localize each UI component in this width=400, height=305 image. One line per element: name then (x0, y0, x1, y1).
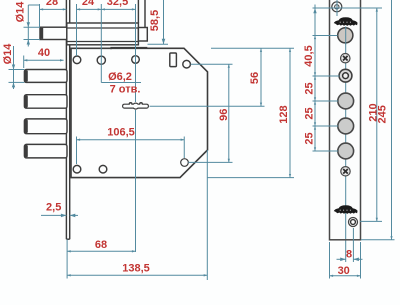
dimension 210 line (376, 8, 378, 221)
svg-text:Ø6,2: Ø6,2 (108, 71, 132, 83)
dimension 30 line (330, 275, 361, 277)
svg-text:28: 28 (46, 0, 58, 8)
leader shelf Ø6,2 (101, 82, 141, 84)
deadbolt B3 (24, 119, 67, 134)
dimension 245 line (391, 0, 393, 240)
dimension 32,5 top (101, 8, 135, 10)
dimension 24 top (77, 8, 102, 10)
svg-text:30: 30 (338, 265, 350, 277)
hole H3 (132, 56, 140, 64)
dimension 25 a (314, 76, 316, 101)
hole H1 (73, 56, 81, 64)
rod cap (138, 28, 147, 42)
vertical rod right line (144, 0, 146, 28)
hole H6 (99, 165, 107, 173)
dimension Ø14 lower: extension lines (9, 69, 25, 71)
dimension 106,5: extensions (76, 137, 78, 165)
dimension 2,5 line with outside arrows (41, 214, 66, 216)
top bolt inner bottom line (67, 41, 139, 43)
svg-text:Ø14: Ø14 (2, 43, 14, 65)
strip plate front view (330, 0, 361, 240)
wire: extension ring2 to 210 (360, 220, 382, 222)
slot (170, 53, 177, 67)
wire: extension line x=135.5 full column (135, 4, 137, 102)
svg-text:128: 128 (278, 105, 290, 123)
deadbolt B1 dark face (25, 70, 28, 82)
svg-text:56: 56 (249, 72, 261, 84)
svg-text:245: 245 (377, 105, 389, 123)
deadbolt B2 dark face (25, 95, 28, 107)
top bolt housing (67, 23, 139, 45)
wire: extension strip bottom to 245 (361, 239, 395, 241)
dimension 40,5 line (314, 36, 316, 77)
wire: extension top circle to 210 (313, 7, 383, 9)
dimension 96 line (228, 64, 230, 162)
wire: left dim column top stub (314, 5, 316, 36)
wire: extension line x=101.3 hole2 column (100, 4, 102, 83)
deadbolt B1 (24, 70, 67, 83)
dimension 68: extension (66, 240, 68, 279)
dimension 8 line outside arrows (337, 258, 346, 260)
strip dimension column: extensions (313, 35, 338, 37)
svg-text:Ø14: Ø14 (15, 1, 27, 23)
ring hole R2 (349, 218, 358, 227)
screw S1 (341, 54, 350, 63)
dimension 56 line (260, 48, 262, 106)
svg-text:25: 25 (303, 107, 315, 119)
svg-text:58,5: 58,5 (149, 10, 161, 31)
svg-text:25: 25 (303, 82, 315, 94)
faceplate side view (65, 0, 67, 239)
ring hole R1 (339, 69, 352, 82)
strip top circle (332, 2, 342, 12)
wire: body bottom edge extension right (207, 177, 294, 179)
deadbolt B3 dark face (25, 120, 28, 134)
wire: body top edge extension right (211, 47, 294, 49)
svg-text:106,5: 106,5 (107, 127, 135, 139)
screw S2 (341, 167, 350, 176)
svg-text:24: 24 (82, 0, 95, 8)
dimension 58,5 line (163, 0, 165, 44)
dimension 25 c (314, 126, 316, 151)
hole H7 (181, 159, 189, 167)
wire: extension line x=75.75 top hole column (76, 4, 78, 56)
svg-text:25: 25 (303, 132, 315, 144)
dimension Ø14 top bolt line (27, 5, 29, 47)
cylinder big circle (338, 28, 353, 43)
dimension 40: extension from lower bolt tip (23, 56, 25, 69)
svg-text:68: 68 (95, 239, 107, 251)
hole H4 (183, 60, 191, 68)
top bolt tip dark face (40, 28, 43, 39)
dimension 138,5 line (67, 274, 207, 276)
svg-text:32,5: 32,5 (107, 0, 128, 8)
hole H2 (97, 56, 105, 64)
deadbolt B4 dark face (25, 145, 28, 157)
svg-text:40,5: 40,5 (303, 45, 315, 66)
svg-text:8: 8 (346, 248, 352, 260)
gray circle G3 (338, 143, 354, 159)
lock body outline (71, 48, 208, 177)
dimension 138,5: extension right (206, 150, 208, 280)
gray circle G1 (338, 93, 354, 109)
svg-text:2,5: 2,5 (46, 201, 61, 213)
wire: keyhole centre line (150, 105, 265, 107)
dimension Ø14 top bolt: extension lines (24, 26, 41, 28)
wire: strip centre axis (345, 28, 347, 239)
top bolt tip (40, 27, 67, 39)
dimension 106,5 line (77, 139, 185, 141)
top bolt inner top line (67, 27, 139, 29)
step line on body top (111, 48, 147, 50)
dimension 30: extensions (329, 242, 331, 279)
dimension 96: extensions (191, 63, 233, 65)
dimension 25 b (314, 101, 316, 126)
svg-text:7 отв.: 7 отв. (110, 84, 141, 96)
hole H5 (73, 165, 81, 173)
svg-text:138,5: 138,5 (122, 263, 150, 275)
gray circle G2 (338, 118, 354, 134)
keyhole outer (122, 102, 149, 110)
dimension 40 line (24, 59, 64, 61)
deadbolt B4 (24, 144, 67, 158)
dimension Ø14 lower line (13, 46, 15, 89)
dimension 28 top (40, 8, 67, 10)
dimension 128 line (289, 48, 291, 177)
wire: top circle axis (336, 0, 338, 16)
wire: extension keyhole center down (135, 110, 137, 252)
emblem logo top (334, 17, 358, 26)
svg-text:40: 40 (38, 47, 50, 59)
svg-text:96: 96 (218, 109, 230, 121)
deadbolt B2 (24, 95, 67, 109)
keyhole inner (123, 104, 148, 109)
dimension 8: extensions (345, 241, 347, 263)
vertical rod left line (137, 0, 139, 23)
dimension 68 line (67, 250, 135, 252)
wire: extension 58,5 bottom (148, 43, 169, 45)
wire: extension line x=39.5 (bolt tip) (39, 4, 41, 27)
emblem logo bottom (334, 205, 358, 214)
